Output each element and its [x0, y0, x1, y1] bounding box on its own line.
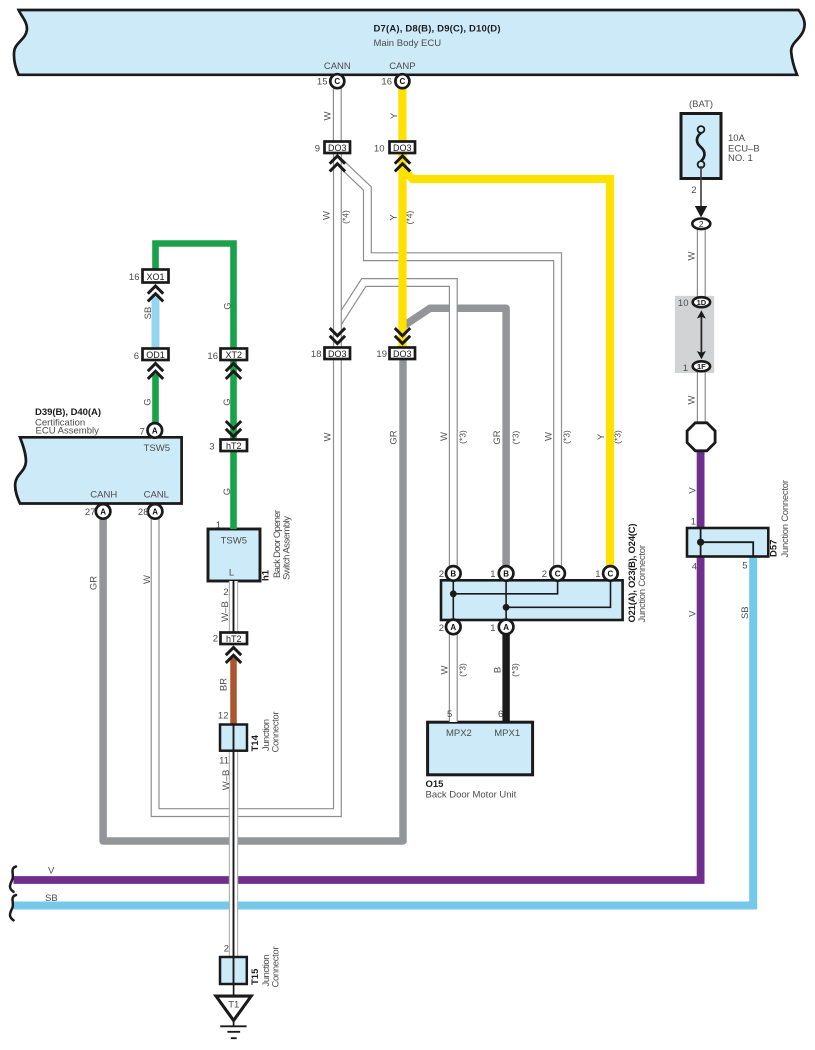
- junction connector O21(A) O23(B) O24(C) box: [441, 575, 623, 625]
- svg-text:6: 6: [134, 351, 139, 362]
- svg-text:28: 28: [138, 507, 149, 518]
- pin 28 A CANL: [148, 504, 163, 519]
- svg-text:W–B: W–B: [220, 601, 231, 622]
- svg-text:1: 1: [691, 516, 696, 527]
- svg-text:16: 16: [129, 272, 140, 283]
- chevron above 3 hT2: [226, 421, 241, 436]
- continuation mark V wire: [10, 867, 16, 892]
- svg-text:Switch Assembly: Switch Assembly: [282, 516, 293, 580]
- connector 6 OD1: [143, 349, 169, 361]
- wire G from XT2 to hT2 pin 3: [230, 359, 237, 441]
- svg-text:Y: Y: [596, 433, 607, 440]
- svg-text:W: W: [544, 432, 555, 441]
- wire Y from 10 DO3 to 19 DO3: [398, 153, 406, 348]
- pin 2 B of junction O21: [446, 566, 461, 581]
- svg-text:DO3: DO3: [393, 143, 412, 153]
- svg-text:G: G: [223, 302, 234, 309]
- wire W from Main Body ECU pin 15 CANN: [333, 85, 342, 143]
- svg-text:2: 2: [691, 185, 696, 196]
- wire W-B from TSW5 pin 2 to hT2 pin 2: [229, 581, 238, 633]
- ellipse 1F: [693, 361, 710, 371]
- connector 3 hT2: [221, 440, 248, 452]
- wire Y from Main Body ECU pin 16 CANP: [398, 85, 406, 143]
- svg-text:16: 16: [381, 77, 392, 88]
- shaded block behind 1D/1F: [675, 296, 714, 373]
- svg-text:NO. 1: NO. 1: [728, 153, 753, 164]
- svg-text:18: 18: [311, 349, 322, 360]
- pin 2 A of junction O21: [446, 620, 461, 635]
- svg-text:1: 1: [490, 569, 495, 580]
- svg-text:(*3): (*3): [458, 663, 468, 677]
- pin 16 C of Main Body ECU: [395, 74, 409, 88]
- svg-text:G: G: [143, 398, 154, 405]
- wire G from hT2 to TSW5 pin 1: [230, 450, 237, 529]
- svg-text:(*3): (*3): [458, 430, 468, 444]
- wire V purple from D57 pin 4 to left edge: [14, 556, 701, 880]
- svg-text:B: B: [503, 569, 509, 578]
- svg-text:19: 19: [376, 349, 387, 360]
- wire W from 1F to octagon: [697, 369, 706, 426]
- svg-text:15: 15: [317, 77, 328, 88]
- svg-text:1: 1: [216, 520, 221, 531]
- svg-text:1F: 1F: [697, 362, 706, 371]
- svg-text:A: A: [503, 623, 509, 632]
- wire from fuse to arrow: [700, 166, 702, 207]
- svg-text:Main Body ECU: Main Body ECU: [374, 38, 442, 49]
- svg-text:C: C: [555, 569, 561, 578]
- svg-text:A: A: [450, 623, 456, 632]
- svg-text:SB: SB: [740, 606, 751, 619]
- ground T1: [216, 996, 251, 1038]
- svg-text:2: 2: [223, 587, 228, 598]
- svg-text:C: C: [608, 569, 614, 578]
- svg-text:9: 9: [315, 143, 320, 154]
- connector 16 XT2: [221, 349, 248, 361]
- svg-text:Y: Y: [389, 214, 400, 221]
- chevron above 18 DO3: [330, 328, 345, 343]
- wire W from ellipse 2 to 1D: [697, 226, 706, 298]
- connector 19 DO3: [390, 348, 416, 360]
- svg-text:1: 1: [683, 363, 688, 374]
- Back Door Opener Switch Assembly box h1 TSW5: [208, 529, 260, 581]
- arrows between 1D and 1F: [697, 310, 706, 359]
- connector 18 DO3: [325, 348, 351, 360]
- svg-text:BR: BR: [219, 678, 230, 691]
- svg-text:C: C: [334, 77, 340, 86]
- Certification ECU Assembly box D39/D40: [15, 437, 181, 503]
- svg-text:(BAT): (BAT): [689, 99, 713, 110]
- svg-text:hT2: hT2: [226, 441, 242, 451]
- svg-text:MPX2: MPX2: [446, 728, 472, 739]
- wire Y (*4) from 10 DO3 to junction 1(C): [403, 169, 611, 568]
- svg-text:XO1: XO1: [146, 272, 164, 282]
- wire BR from hT2 pin 2 to T14 pin 12: [230, 657, 237, 726]
- svg-text:GR: GR: [389, 430, 400, 444]
- wire W from CANL pin 28 to connector 18 DO3: [155, 359, 337, 813]
- svg-text:2: 2: [699, 219, 704, 229]
- svg-text:5: 5: [447, 709, 452, 720]
- svg-text:(*4): (*4): [405, 210, 415, 224]
- svg-text:A: A: [152, 426, 158, 435]
- svg-text:W: W: [440, 665, 451, 674]
- wire GR from CANH pin 27 to connector 19 DO3: [103, 359, 403, 841]
- chevron below 9 DO3: [330, 156, 345, 171]
- wire W (*4) from 9 DO3 to junction 2(C): [337, 160, 557, 567]
- ellipse 1D: [693, 297, 710, 307]
- wire G from OD1 to pin 7: [152, 374, 159, 430]
- svg-text:(*4): (*4): [341, 210, 351, 224]
- wire W-B from T14 pin 11 to T15 pin 2: [229, 750, 238, 958]
- svg-text:TSW5: TSW5: [221, 536, 247, 547]
- svg-text:T15: T15: [250, 968, 261, 985]
- pin 1 A of junction O21: [499, 620, 514, 635]
- Back Door Motor Unit box O15: [428, 722, 533, 775]
- wire V purple from octagon to D57 pin 1: [697, 451, 705, 528]
- svg-text:W: W: [687, 395, 698, 404]
- svg-text:12: 12: [218, 710, 229, 721]
- svg-text:2: 2: [439, 623, 444, 634]
- ellipse 2 below fuse: [692, 219, 710, 230]
- continuation mark SB wire: [10, 895, 16, 920]
- svg-text:10: 10: [374, 143, 385, 154]
- svg-text:(*3): (*3): [511, 430, 521, 444]
- pin 1 B of junction O21: [499, 566, 514, 581]
- connector 9 DO3: [325, 142, 351, 154]
- svg-text:B: B: [450, 569, 456, 578]
- junction connector T15 box: [220, 957, 247, 984]
- connector 16 XO1: [143, 270, 169, 283]
- svg-text:2: 2: [542, 569, 547, 580]
- wire SB from D57 pin 5 to left edge: [14, 556, 754, 906]
- svg-text:DO3: DO3: [393, 349, 412, 359]
- svg-text:A: A: [100, 507, 106, 516]
- svg-text:MPX1: MPX1: [494, 728, 520, 739]
- svg-text:2: 2: [224, 944, 229, 955]
- svg-text:W: W: [323, 432, 334, 441]
- svg-text:h1: h1: [261, 569, 272, 581]
- svg-text:SB: SB: [45, 893, 58, 904]
- svg-text:CANP: CANP: [389, 61, 415, 72]
- svg-text:3: 3: [209, 442, 214, 453]
- svg-text:DO3: DO3: [328, 349, 347, 359]
- svg-text:7: 7: [140, 427, 145, 438]
- chevron below XT2: [226, 364, 241, 379]
- svg-text:GR: GR: [89, 576, 100, 590]
- svg-text:V: V: [687, 610, 698, 617]
- svg-text:XT2: XT2: [225, 350, 242, 360]
- junction connector D57 box: [687, 528, 768, 557]
- svg-text:L: L: [229, 568, 234, 579]
- chevron below 10 DO3: [395, 156, 410, 171]
- svg-text:ECU Assembly: ECU Assembly: [36, 426, 100, 437]
- connector 2 hT2: [221, 633, 248, 645]
- junction connector T14 box: [220, 725, 247, 751]
- svg-text:W: W: [322, 211, 333, 220]
- svg-text:4: 4: [692, 561, 697, 572]
- link line 1D to 1F: [700, 313, 702, 356]
- svg-text:16: 16: [207, 351, 218, 362]
- Main Body ECU banner D7/D8/D9/D10: [14, 10, 805, 75]
- svg-text:CANN: CANN: [324, 61, 351, 72]
- pin 15 C of Main Body ECU: [330, 74, 344, 88]
- svg-text:CANL: CANL: [144, 490, 169, 501]
- svg-text:10: 10: [678, 298, 689, 309]
- wire from T15 to ground T1: [233, 984, 235, 996]
- svg-text:(*3): (*3): [613, 430, 623, 444]
- svg-text:W: W: [439, 432, 450, 441]
- svg-text:SB: SB: [143, 307, 154, 320]
- wire G loop from XO1 to XT2: [156, 244, 234, 351]
- svg-text:D57: D57: [769, 540, 780, 557]
- svg-text:DO3: DO3: [328, 143, 347, 153]
- svg-text:27: 27: [85, 507, 96, 518]
- pin 27 A CANH: [96, 504, 111, 519]
- chevron below 2 hT2: [226, 648, 241, 663]
- svg-text:W: W: [323, 111, 334, 120]
- wire SB from XO1 to OD1: [152, 294, 160, 350]
- svg-text:1: 1: [595, 569, 600, 580]
- svg-text:(*3): (*3): [510, 663, 520, 677]
- svg-text:1D: 1D: [697, 298, 707, 307]
- fuse box ECU-B NO.1: [681, 114, 721, 179]
- svg-text:5: 5: [742, 561, 747, 572]
- svg-text:V: V: [688, 487, 699, 494]
- svg-text:T1: T1: [228, 1000, 239, 1011]
- svg-text:2: 2: [213, 633, 218, 644]
- svg-text:11: 11: [219, 755, 229, 766]
- svg-text:Connector: Connector: [271, 712, 282, 753]
- svg-text:Junction Connector: Junction Connector: [637, 545, 648, 623]
- svg-text:OD1: OD1: [146, 350, 165, 360]
- svg-text:Connector: Connector: [271, 947, 282, 988]
- svg-text:1: 1: [490, 623, 495, 634]
- svg-text:Junction Connector: Junction Connector: [780, 480, 791, 558]
- svg-text:D7(A), D8(B), D9(C), D10(D): D7(A), D8(B), D9(C), D10(D): [374, 24, 501, 35]
- wire B from junction 1(A) to O15 pin 6 MPX1: [502, 630, 509, 722]
- chevron above 19 DO3: [395, 328, 410, 343]
- wire W (*3) from junction 2(A) to O15 pin 5: [449, 630, 458, 722]
- svg-text:G: G: [222, 398, 233, 405]
- svg-text:W: W: [687, 251, 698, 260]
- pin 1 C of junction O21: [603, 566, 618, 581]
- svg-text:2: 2: [439, 569, 444, 580]
- svg-text:Y: Y: [389, 112, 400, 119]
- wire GR (*3) from 19 DO3 to junction 1(B): [404, 308, 507, 567]
- wire W (*3) from 18 DO3 to junction 2(B): [337, 283, 453, 568]
- pin 2 C of junction O21: [550, 566, 565, 581]
- svg-text:C: C: [400, 77, 406, 86]
- svg-text:GR: GR: [492, 430, 503, 444]
- chevron below OD1: [148, 364, 163, 379]
- arrow below fuse: [695, 206, 707, 218]
- svg-text:W–B: W–B: [221, 770, 232, 791]
- svg-text:B: B: [493, 667, 504, 673]
- svg-text:hT2: hT2: [226, 634, 242, 644]
- svg-text:V: V: [48, 866, 55, 877]
- svg-text:Back Door Motor Unit: Back Door Motor Unit: [426, 789, 517, 800]
- octagon node: [687, 423, 715, 451]
- svg-text:(*3): (*3): [562, 430, 572, 444]
- svg-text:T14: T14: [250, 734, 261, 751]
- svg-text:A: A: [152, 507, 158, 516]
- chevron below XO1: [148, 286, 163, 301]
- svg-text:6: 6: [498, 709, 503, 720]
- wire W from 9 DO3 to 18 DO3: [333, 153, 342, 348]
- svg-text:W: W: [142, 575, 153, 584]
- pin 7 A of Certification ECU: [148, 423, 163, 438]
- svg-text:CANH: CANH: [90, 490, 117, 501]
- svg-text:TSW5: TSW5: [144, 443, 170, 454]
- svg-text:G: G: [222, 488, 233, 495]
- connector 10 DO3: [390, 142, 416, 154]
